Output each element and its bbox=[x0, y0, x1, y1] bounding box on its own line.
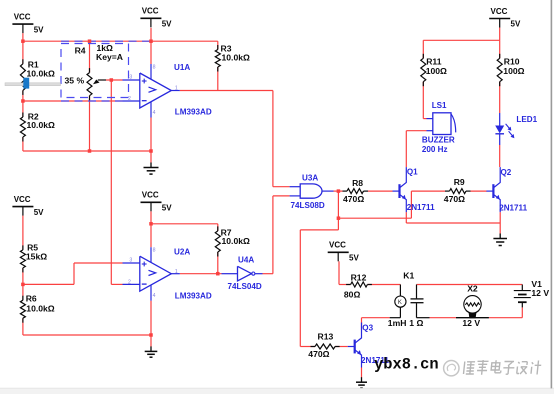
svg-text:2N1711: 2N1711 bbox=[407, 203, 435, 212]
svg-text:Q2: Q2 bbox=[501, 168, 512, 177]
svg-text:5V: 5V bbox=[511, 20, 521, 29]
svg-text:80Ω: 80Ω bbox=[344, 290, 361, 300]
svg-text:U1A: U1A bbox=[174, 63, 190, 72]
svg-text:BUZZER: BUZZER bbox=[422, 136, 455, 145]
svg-text:U2A: U2A bbox=[174, 248, 190, 257]
svg-text:U4A: U4A bbox=[238, 256, 254, 265]
svg-text:10.0kΩ: 10.0kΩ bbox=[26, 304, 55, 314]
svg-text:ybx8.cn: ybx8.cn bbox=[374, 356, 439, 374]
svg-text:VCC: VCC bbox=[491, 7, 508, 16]
svg-text:R10: R10 bbox=[504, 57, 520, 67]
svg-text:R8: R8 bbox=[352, 178, 363, 188]
svg-text:8: 8 bbox=[153, 64, 156, 70]
svg-text:74LS08D: 74LS08D bbox=[291, 201, 325, 210]
svg-text:12 V: 12 V bbox=[531, 288, 549, 298]
svg-text:8: 8 bbox=[153, 248, 156, 254]
svg-text:5V: 5V bbox=[162, 20, 172, 29]
svg-text:LM393AD: LM393AD bbox=[175, 108, 212, 117]
svg-text:4: 4 bbox=[153, 293, 156, 299]
svg-text:200 Hz: 200 Hz bbox=[422, 145, 448, 154]
svg-text:2: 2 bbox=[128, 279, 131, 285]
svg-text:10.0kΩ: 10.0kΩ bbox=[222, 53, 251, 63]
svg-text:470Ω: 470Ω bbox=[343, 194, 364, 204]
svg-text:100Ω: 100Ω bbox=[503, 66, 524, 76]
svg-text:12 V: 12 V bbox=[462, 318, 480, 328]
svg-text:R6: R6 bbox=[26, 294, 37, 304]
svg-text:5V: 5V bbox=[162, 204, 172, 213]
svg-text:LM393AD: LM393AD bbox=[175, 292, 212, 301]
svg-text:4: 4 bbox=[153, 110, 156, 116]
svg-text:X2: X2 bbox=[467, 284, 478, 294]
svg-text:K1: K1 bbox=[403, 270, 414, 280]
svg-text:2: 2 bbox=[128, 96, 131, 102]
svg-text:R13: R13 bbox=[318, 332, 334, 342]
svg-text:VCC: VCC bbox=[14, 13, 31, 22]
svg-text:VCC: VCC bbox=[142, 7, 159, 16]
svg-text:U3A: U3A bbox=[302, 174, 318, 183]
svg-text:Key=A: Key=A bbox=[96, 52, 123, 62]
svg-text:10.0kΩ: 10.0kΩ bbox=[27, 69, 56, 79]
svg-text:Q1: Q1 bbox=[407, 168, 418, 177]
svg-text:R4: R4 bbox=[75, 46, 86, 56]
svg-text:R11: R11 bbox=[426, 57, 442, 67]
svg-text:3: 3 bbox=[129, 74, 132, 80]
svg-text:2N1711: 2N1711 bbox=[499, 203, 527, 212]
svg-text:VCC: VCC bbox=[142, 191, 159, 200]
svg-text:470Ω: 470Ω bbox=[308, 349, 329, 359]
svg-text:1mH: 1mH bbox=[388, 318, 407, 328]
svg-text:R9: R9 bbox=[454, 177, 465, 187]
svg-text:5V: 5V bbox=[34, 25, 44, 34]
svg-text:74LS04D: 74LS04D bbox=[228, 282, 262, 291]
svg-text:100Ω: 100Ω bbox=[426, 66, 447, 76]
svg-text:1: 1 bbox=[175, 86, 178, 92]
svg-text:5V: 5V bbox=[34, 208, 44, 217]
svg-text:5V: 5V bbox=[349, 254, 359, 263]
svg-text:3: 3 bbox=[129, 258, 132, 264]
svg-text:15kΩ: 15kΩ bbox=[26, 252, 47, 262]
svg-text:LED1: LED1 bbox=[516, 115, 537, 124]
svg-text:35 %: 35 % bbox=[65, 76, 85, 86]
svg-text:VCC: VCC bbox=[329, 241, 346, 250]
svg-text:R12: R12 bbox=[351, 273, 367, 283]
svg-text:470Ω: 470Ω bbox=[444, 194, 465, 204]
svg-text:LS1: LS1 bbox=[432, 101, 447, 110]
svg-text:1: 1 bbox=[175, 269, 178, 275]
svg-text:1 Ω: 1 Ω bbox=[409, 318, 423, 328]
svg-text:Q3: Q3 bbox=[362, 324, 373, 333]
svg-text:VCC: VCC bbox=[14, 195, 31, 204]
svg-text:10.0kΩ: 10.0kΩ bbox=[27, 120, 56, 130]
svg-text:10.0kΩ: 10.0kΩ bbox=[222, 236, 251, 246]
